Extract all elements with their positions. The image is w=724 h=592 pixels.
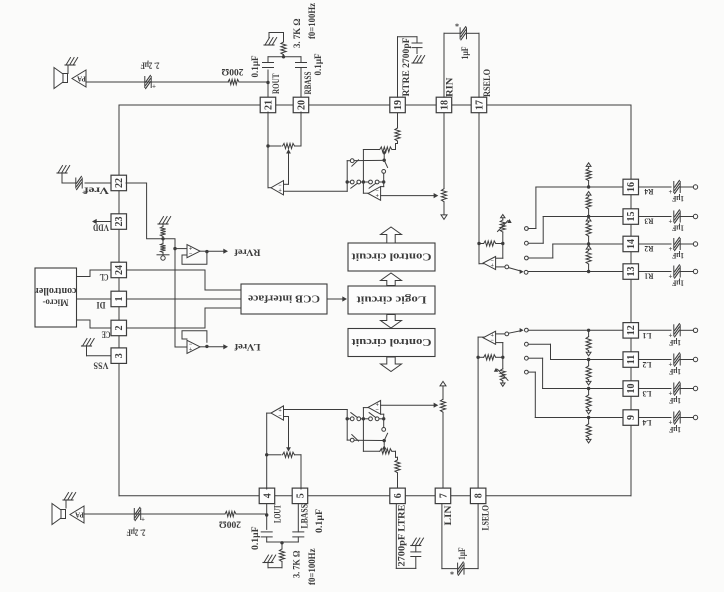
svg-text:PA: PA <box>77 75 86 83</box>
block arrow logic-control2 <box>381 315 402 329</box>
svg-text:1: 1 <box>114 297 125 302</box>
pin 16 R4 <box>623 179 639 195</box>
svg-text:Micro-: Micro- <box>43 298 69 308</box>
svg-text:+: + <box>82 189 86 197</box>
wire cap to terminal L3 <box>681 388 693 390</box>
svg-text:+: + <box>141 516 145 524</box>
svg-text:R1: R1 <box>645 272 654 282</box>
wire uC CE <box>77 320 112 328</box>
arrow Vref L1 <box>588 351 590 353</box>
wire treble pot row (L) <box>363 450 379 452</box>
pin 10 L3 <box>623 381 639 397</box>
svg-text:13: 13 <box>626 267 637 277</box>
arrow Vref L4 <box>588 438 590 440</box>
wire step contact L4 <box>534 372 536 417</box>
svg-text:5: 5 <box>295 493 306 498</box>
svg-text:1μF: 1μF <box>669 367 681 377</box>
resistor on pin19 riser <box>397 113 399 128</box>
svg-text:1μF: 1μF <box>460 46 470 59</box>
svg-text:DI: DI <box>96 300 105 310</box>
wire 200ohm to pin21 node <box>239 81 268 83</box>
pin 10 L3 row wire <box>543 388 623 390</box>
svg-text:15: 15 <box>626 212 637 222</box>
wiper R-treble pot <box>382 151 387 155</box>
wire U7 to volume pot <box>381 404 436 406</box>
svg-text:*: * <box>455 22 459 31</box>
svg-text:1μF: 1μF <box>672 251 684 261</box>
op-amp U2 R-treble <box>363 192 368 194</box>
wire RVref feedback <box>182 253 207 265</box>
svg-text:RVref: RVref <box>233 247 260 257</box>
pin 20 RBASS <box>293 97 309 113</box>
pin 17 RSELO <box>471 97 487 113</box>
wire DI pin1 to CCB <box>126 298 241 300</box>
pin 12 L1 <box>623 323 639 339</box>
svg-text:L3: L3 <box>643 389 652 399</box>
wire: IC right rail <box>630 105 632 496</box>
svg-text:0.1μF: 0.1μF <box>313 53 323 75</box>
svg-text:20: 20 <box>296 100 307 110</box>
box Micro-controller <box>35 268 77 327</box>
wire pin 12 to cap <box>639 329 671 331</box>
terminal R4 <box>693 185 697 189</box>
svg-text:+: + <box>669 188 673 196</box>
switch S2 vertical (R) <box>384 160 387 167</box>
capacitor 1uF R3 <box>673 211 675 222</box>
wire pin 9 to cap <box>639 417 671 419</box>
svg-text:1μF: 1μF <box>672 224 684 234</box>
svg-text:f0=100Hz: f0=100Hz <box>307 548 317 585</box>
pin 18 RIN <box>436 97 452 113</box>
svg-text:R2: R2 <box>645 244 654 254</box>
wire uC DI <box>77 298 112 300</box>
svg-text:0.1μF: 0.1μF <box>314 508 324 533</box>
pin 3 VSS <box>111 348 127 364</box>
node wire 3.7K top <box>268 56 301 58</box>
potentiometer R-treble <box>380 147 392 152</box>
wire LVref output arrow <box>200 346 207 348</box>
wire step contact L2 <box>550 344 552 359</box>
capacitor 1uF L1 <box>673 325 675 336</box>
svg-text:RIN: RIN <box>445 77 455 97</box>
svg-text:controller: controller <box>34 285 77 296</box>
wire: IC left rail <box>118 105 120 496</box>
wire pin22 to cap <box>85 182 111 184</box>
pin 5 LBASS <box>292 488 308 504</box>
pin 11 L2 row wire <box>551 359 624 361</box>
op-amp U6 L-bass <box>267 412 271 414</box>
svg-text:+: + <box>490 263 494 269</box>
switch row2 (R) <box>346 180 349 183</box>
wire pin21 lower riser <box>267 112 269 188</box>
svg-text:−: − <box>490 338 494 344</box>
svg-text:L1: L1 <box>643 331 652 341</box>
capacitor 1uF R1 <box>673 266 675 277</box>
wiper L-bass pot <box>286 447 291 451</box>
wire pin4 upper riser <box>266 413 268 489</box>
wire pin21 riser upper <box>267 83 269 99</box>
svg-text:17: 17 <box>474 100 485 110</box>
potentiometer L-treble <box>380 449 392 454</box>
wire VSS to ground <box>87 355 112 357</box>
wire step contact R4 <box>535 187 537 229</box>
svg-text:−: − <box>375 408 379 414</box>
wire CCB to logic arrow <box>327 298 345 300</box>
resistor select R1 <box>586 251 591 265</box>
svg-text:11: 11 <box>626 355 637 364</box>
wire pin 10 to cap <box>639 388 671 390</box>
capacitor 0.1uF at RBASS <box>300 57 302 63</box>
svg-text:9: 9 <box>626 415 637 420</box>
pin 13 R1 row wire <box>528 271 623 273</box>
wire S1L to row2 <box>347 439 350 441</box>
svg-text:2. 2μF: 2. 2μF <box>140 60 159 70</box>
wire to U5 minus <box>502 244 504 259</box>
svg-text:3. 7K Ω: 3. 7K Ω <box>292 19 302 49</box>
capacitor 0.1uF at ROUT <box>267 70 269 83</box>
svg-text:23: 23 <box>114 217 125 227</box>
svg-text:4: 4 <box>262 493 273 498</box>
arrow Vref L2 <box>588 380 590 382</box>
pin 14 R2 <box>623 236 639 252</box>
capacitor 1uF L3 <box>673 383 675 394</box>
pin 15 R3 row wire <box>543 216 623 218</box>
wire S1 to row2 <box>347 160 350 162</box>
capacitor 1uF L2 <box>673 354 675 365</box>
svg-text:R3: R3 <box>645 217 654 227</box>
svg-text:8: 8 <box>474 493 485 498</box>
wire pin 16 to cap <box>639 186 671 188</box>
wire pin6 bottom riser <box>395 504 397 569</box>
wiper arrow L-select <box>498 369 509 380</box>
pin 1 DI <box>111 291 127 307</box>
svg-text:10: 10 <box>626 384 637 394</box>
ground 2700pF (L) <box>412 538 417 546</box>
svg-text:1μF: 1μF <box>672 279 684 289</box>
wire pin7 bottom riser <box>441 504 443 569</box>
wiper L-treble pot <box>382 445 387 449</box>
svg-text:1μF: 1μF <box>672 194 684 204</box>
svg-text:VSS: VSS <box>94 360 109 370</box>
pin 6 LTRE <box>390 488 406 504</box>
resistor RSELO feedback <box>479 243 484 245</box>
wire U2 to volume pot <box>381 195 436 197</box>
wire pin 15 to cap <box>639 216 671 218</box>
pin 22 Vref <box>111 175 127 191</box>
ground VSS <box>83 339 88 347</box>
svg-text:16: 16 <box>626 182 637 192</box>
terminal L3 <box>693 386 697 390</box>
pin 23 VDD <box>111 214 127 230</box>
arrow R-volume down <box>441 215 447 220</box>
wire pin 14 to cap <box>639 243 671 245</box>
wiper R-bass pot <box>286 149 291 153</box>
ground 3.7K (L) <box>264 555 269 563</box>
pin 11 L2 <box>623 352 639 368</box>
wire pin18 lower riser <box>443 113 445 188</box>
wire pin17 top riser <box>467 32 480 34</box>
capacitor Vref electrolytic <box>75 178 77 188</box>
wire PA-R to 200ohm <box>86 81 229 83</box>
op-amp U8 L-select <box>478 336 484 338</box>
switch R-select throw <box>505 265 509 269</box>
capacitor 2.2uF (L) <box>133 509 135 520</box>
contact circle L2 <box>525 342 529 346</box>
amplifier PA (R) <box>72 70 86 87</box>
terminal L1 <box>693 328 697 332</box>
resistor Vref divider upper <box>160 227 165 237</box>
svg-text:+: + <box>669 245 673 253</box>
ground Vref <box>58 166 63 174</box>
capacitor 2700pF (R) <box>416 37 418 42</box>
svg-text:Logic circuit: Logic circuit <box>356 293 427 304</box>
wire 3.7K to ground (R) <box>269 32 284 34</box>
wire U5 plus to switch <box>496 266 505 268</box>
ground 2700pF (R) <box>413 56 418 64</box>
switch row2 (L) <box>346 417 349 420</box>
wire cap to terminal R2 <box>681 243 693 245</box>
pin 21 ROUT <box>260 97 276 113</box>
ground 3.7K (R) <box>265 38 270 46</box>
svg-text:LIN: LIN <box>443 505 453 526</box>
wire pin8 bottom riser <box>464 568 478 570</box>
svg-text:3: 3 <box>114 353 125 358</box>
svg-text:Control circuit: Control circuit <box>351 336 432 347</box>
potentiometer L-bass feedback <box>267 454 281 456</box>
arrow L-volume up <box>440 381 446 386</box>
terminal R1 <box>693 269 697 273</box>
ground above PA L <box>64 493 69 501</box>
contact circle R3 <box>525 241 529 245</box>
svg-text:+: + <box>375 194 379 200</box>
wire treble pot row <box>363 149 379 151</box>
resistor select L4 <box>586 424 591 438</box>
svg-text:1μF: 1μF <box>669 396 681 406</box>
svg-text:L2: L2 <box>643 360 652 370</box>
pin 9 L4 row wire <box>535 417 623 419</box>
terminal Vref divider <box>157 254 169 256</box>
pin 4 LOUT <box>259 488 275 504</box>
resistor select R4 <box>586 169 591 181</box>
ground Vref divider <box>159 217 164 225</box>
terminal L2 <box>693 357 697 361</box>
ground above PA R <box>66 58 71 66</box>
speaker SP-R <box>54 68 63 89</box>
svg-text:RTRE 2700pF: RTRE 2700pF <box>401 37 411 97</box>
capacitor 0.1uF at LOUT <box>266 515 268 529</box>
potentiometer L-volume <box>440 399 445 412</box>
resistor on pin6 riser <box>397 473 399 488</box>
wire CL pin24 to CCB <box>126 270 241 290</box>
wire pin19 top riser <box>397 37 399 97</box>
block arrow up (R control) <box>381 227 402 243</box>
wire pin 13 to cap <box>639 271 671 273</box>
wire U7 minus input <box>383 414 385 419</box>
potentiometer R-volume <box>441 189 446 202</box>
wire pin7 upper riser <box>442 413 444 488</box>
svg-text:200Ω: 200Ω <box>219 519 241 529</box>
wire Vref rail <box>126 183 175 347</box>
svg-text:3. 7K Ω: 3. 7K Ω <box>292 551 302 579</box>
contact circle R2 <box>525 256 529 260</box>
svg-text:2. 2μF: 2. 2μF <box>126 527 145 537</box>
resistor LSELO feedback <box>478 356 483 358</box>
amplifier PA (L) <box>70 506 84 523</box>
svg-text:+: + <box>278 188 282 194</box>
svg-text:2: 2 <box>114 326 125 331</box>
svg-text:+: + <box>669 273 673 281</box>
arrow VDD <box>95 221 111 223</box>
svg-text:0.1μF: 0.1μF <box>250 526 260 550</box>
contact circle L3 <box>525 356 529 360</box>
resistor select L1 <box>586 337 591 351</box>
wire to U8 minus <box>502 343 504 358</box>
block arrow down (L control) <box>381 357 402 372</box>
svg-text:ROUT: ROUT <box>271 74 281 95</box>
op-amp U5 R-select <box>479 263 484 265</box>
wire 200ohm to pin4 node <box>236 513 267 515</box>
svg-text:*: * <box>450 570 454 579</box>
wire U1 plus input to switches <box>284 190 348 192</box>
svg-text:+: + <box>669 218 673 226</box>
svg-text:VDD: VDD <box>93 222 109 232</box>
svg-text:PA: PA <box>75 511 84 519</box>
resistor 200ohm (L) <box>225 511 236 516</box>
wire: IC top bus <box>119 104 631 106</box>
svg-text:2700pF LTRE: 2700pF LTRE <box>397 505 407 567</box>
terminal L4 <box>693 415 697 419</box>
op-amp U3 RVref buffer <box>187 245 200 258</box>
svg-text:RBASS: RBASS <box>303 72 313 95</box>
potentiometer R-select gain <box>502 232 504 244</box>
svg-text:200Ω: 200Ω <box>222 67 244 77</box>
capacitor 1uF (LIN) <box>457 563 459 574</box>
contact circle R4 <box>525 227 529 231</box>
terminal R2 <box>693 242 697 246</box>
svg-text:0.1μF: 0.1μF <box>250 55 260 77</box>
wire CE pin2 to CCB <box>126 308 241 328</box>
capacitor 2.2uF (R) <box>144 77 146 88</box>
resistor 200ohm (R) <box>228 79 239 84</box>
wire RVref input <box>175 248 187 250</box>
node wire 3.7K bottom <box>267 541 299 543</box>
svg-text:14: 14 <box>626 239 637 249</box>
svg-text:24: 24 <box>114 265 125 275</box>
op-amp U1 R-bass <box>268 187 271 189</box>
svg-text:RSELO: RSELO <box>482 69 492 97</box>
svg-text:−: − <box>189 251 193 257</box>
resistor select L2 <box>586 366 591 380</box>
pin 24 CL <box>111 262 127 278</box>
pin 7 LIN <box>435 488 451 504</box>
svg-text:L4: L4 <box>642 418 652 428</box>
svg-text:1μF: 1μF <box>669 425 681 435</box>
svg-text:1μF: 1μF <box>457 547 467 560</box>
wire cap to terminal L4 <box>681 417 693 419</box>
svg-text:+: + <box>152 83 156 91</box>
svg-text:+: + <box>189 347 193 353</box>
wire PA-L to 200ohm <box>84 513 225 515</box>
resistor select L3 <box>586 395 591 409</box>
pin 8 LSELO <box>470 488 486 504</box>
arrow Vref R4 <box>588 166 590 169</box>
block arrow control-logic <box>381 273 402 286</box>
wire U8 plus to switch <box>496 333 505 335</box>
resistor select R3 <box>586 197 591 209</box>
wire U2 minus input <box>383 182 385 187</box>
svg-text:19: 19 <box>393 100 404 110</box>
svg-text:6: 6 <box>393 493 404 498</box>
svg-text:12: 12 <box>626 325 637 335</box>
contact circle L4 <box>525 370 529 374</box>
arrow Vref R3 <box>588 195 590 197</box>
wire U6 plus input to switches <box>284 409 348 411</box>
arrow Vref R2 <box>588 220 590 222</box>
wire step contact R2 <box>552 244 554 258</box>
wiper arrow R-select <box>498 221 509 232</box>
box Control circuit (L) <box>348 329 435 357</box>
capacitor 1uF (RIN) <box>459 28 461 39</box>
wire cap to terminal R1 <box>681 271 693 273</box>
wire pin 11 to cap <box>639 359 671 361</box>
capacitor 2700pF (L) <box>415 557 417 568</box>
wire pin18 top riser <box>443 33 445 97</box>
wire pin8 upper riser <box>477 337 479 488</box>
wire step contact R3 <box>542 217 544 244</box>
capacitor 1uF L4 <box>673 412 675 423</box>
speaker SP-L <box>52 504 61 525</box>
svg-text:22: 22 <box>114 178 125 188</box>
box Control circuit (R) <box>348 243 435 271</box>
wire: IC bottom bus <box>119 495 631 497</box>
svg-text:R4: R4 <box>644 187 654 197</box>
resistor Vref divider lower <box>162 239 164 244</box>
op-amp U4 LVref buffer <box>187 340 200 353</box>
pin 13 R1 <box>623 264 639 280</box>
capacitor 1uF R2 <box>673 239 675 250</box>
switch L-select throw <box>505 332 509 336</box>
wire RVref output arrow <box>200 250 207 252</box>
switch S2 vertical (L) <box>384 433 387 440</box>
svg-text:LOUT: LOUT <box>273 505 283 524</box>
potentiometer R-bass feedback <box>268 145 281 147</box>
wire 3.7K to ground (L) <box>268 567 282 569</box>
wire cap to terminal R4 <box>681 186 693 188</box>
svg-text:Control circuit: Control circuit <box>351 250 432 261</box>
terminal R3 <box>693 214 697 218</box>
svg-text:LSELO: LSELO <box>481 505 491 531</box>
arrow Vref L3 <box>588 409 590 411</box>
svg-text:−: − <box>278 413 282 419</box>
pin 2 CE <box>111 320 127 336</box>
wire cap to terminal L1 <box>681 329 693 331</box>
wire rail op2 output <box>362 150 364 194</box>
op-amp U7 L-treble <box>363 407 368 409</box>
wire pin17 lower riser <box>478 113 480 264</box>
switch S1a (L) <box>350 438 354 442</box>
pin 9 L4 <box>623 410 639 426</box>
box Logic circuit <box>348 286 435 314</box>
svg-text:7: 7 <box>438 493 449 498</box>
wire step contact L3 <box>542 358 544 388</box>
svg-text:CE: CE <box>102 329 111 339</box>
resistor 3.7K (R) <box>283 55 285 57</box>
pin 14 R2 row wire <box>553 243 623 245</box>
wire pin4 riser lower <box>266 503 268 515</box>
wire LVref feedback <box>182 331 207 343</box>
potentiometer L-select gain <box>502 357 504 369</box>
pin 16 R4 row wire <box>536 186 623 188</box>
